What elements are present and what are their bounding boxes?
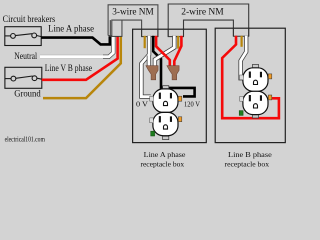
receptacle A brass screws (right) [178, 96, 182, 101]
svg-text:Line B phase: Line B phase [228, 150, 272, 159]
box B cable tab [233, 28, 248, 36]
receptacle B upper ground hole [254, 80, 258, 84]
svg-text:Line A phase: Line A phase [144, 150, 186, 159]
svg-text:Line V B phase: Line V B phase [45, 63, 92, 73]
box A: white neutral to receptacle A [141, 36, 150, 97]
svg-text:Ground: Ground [14, 89, 41, 99]
svg-text:Line A phase: Line A phase [48, 23, 94, 33]
circuit breaker CB2 (Line B) [5, 67, 42, 88]
svg-text:electrical101.com: electrical101.com [5, 137, 46, 144]
receptacle A body [153, 89, 178, 136]
receptacle A ground screw (green) [151, 131, 155, 136]
box A: white pigtail into wire nut [147, 56, 151, 66]
box A: red from 3-wire NM into wire nut [156, 36, 170, 66]
svg-text:120 V: 120 V [184, 100, 200, 108]
svg-text:receptacle box: receptacle box [225, 159, 270, 168]
wire: bare ground from panel to NM riser [43, 36, 121, 98]
3-wire NM riser sheath from panel [110, 20, 122, 36]
receptacle A lower ground hole [164, 125, 168, 129]
box A: black hot wire to receptacle A 120V screw [153, 36, 194, 97]
receptacle A mounting ears [163, 86, 169, 89]
receptacle A upper ground hole [164, 101, 168, 105]
wire nut (red splice) [167, 66, 179, 80]
box A cable tab 1 [142, 29, 158, 36]
box A: ground stub from 2-wire NM [177, 36, 179, 49]
box A: ground stub from 3-wire NM [144, 36, 146, 48]
svg-text:0 V: 0 V [136, 101, 148, 109]
receptacle B body [243, 68, 268, 115]
receptacle A silver screws (left) [150, 96, 154, 101]
receptacle box B outline [215, 28, 285, 142]
receptacle B silver screws (left) [240, 75, 244, 80]
receptacle A upper slots [159, 93, 161, 99]
box A: red from 2-wire NM into wire nut [174, 36, 181, 66]
2-wire NM cable label box [168, 4, 249, 37]
receptacle B brass screws (right) [268, 74, 272, 79]
svg-text:2-wire NM: 2-wire NM [181, 8, 224, 18]
wire nut (white splice) [146, 66, 158, 80]
receptacle A lower slots [159, 116, 161, 122]
3-wire NM cable label box [108, 5, 158, 37]
wire: red Line B from CB2 to NM riser [42, 36, 118, 80]
svg-text:Neutral: Neutral [14, 51, 37, 61]
receptacle B lower ground hole [254, 104, 258, 108]
box B: ground stub [241, 36, 243, 47]
3-wire NM riser mouth line [110, 35, 123, 37]
receptacle B ground screw (green) [239, 111, 243, 116]
box A: white from 2-wire NM into wire nut [155, 36, 174, 66]
svg-text:3-wire NM: 3-wire NM [112, 8, 154, 18]
circuit breaker CB1 (Line A) [5, 27, 41, 46]
receptacle B lower slots [249, 95, 251, 101]
receptacle B mounting ears [252, 65, 258, 68]
svg-text:receptacle box: receptacle box [140, 159, 184, 168]
receptacle box A outline [133, 29, 207, 142]
wire: white neutral from panel to NM riser [40, 55, 104, 59]
box A cable tab 2 [168, 29, 183, 36]
box B: red hot wire looping to receptacle B [222, 36, 279, 118]
receptacle B upper slots [249, 72, 251, 78]
box B: white neutral to receptacle B [241, 36, 247, 78]
wire: black Line A from CB1 to NM riser [41, 36, 110, 44]
